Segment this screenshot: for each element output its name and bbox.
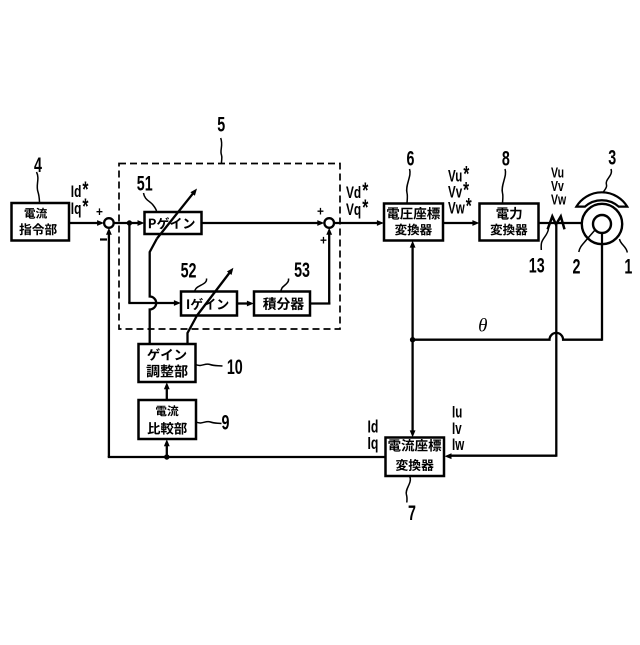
box 10: gain adjuster xyxy=(139,344,196,382)
text 電流 (box 9) xyxy=(156,405,178,416)
junction dot on theta line xyxy=(410,337,415,342)
motor stator magnet 3 (crescent) xyxy=(576,192,627,206)
leader line for label 53 xyxy=(281,279,289,292)
motor outer circle 2 (stator) xyxy=(582,204,622,244)
leader line for label 6 xyxy=(407,169,410,203)
wire: voltage coordinate converter to power converter xyxy=(443,222,475,224)
svg-text:6: 6 xyxy=(407,147,415,170)
text 調整部 (box 10) xyxy=(147,364,188,377)
svg-text:9: 9 xyxy=(222,411,230,434)
junction dot on bottom feedback line xyxy=(164,454,169,459)
box 51: P gain xyxy=(145,212,202,234)
text Iゲイン xyxy=(187,298,228,310)
svg-text:13: 13 xyxy=(529,254,545,277)
text 比較部 (box 9) xyxy=(148,422,187,435)
wire: gain adjuster up to P gain adjust arrow (with hop over I gain wire) xyxy=(150,239,157,345)
text 変換器 (box 7) xyxy=(396,459,434,471)
leader line for label 52 xyxy=(195,279,207,292)
coil 13 (reactor zigzag) xyxy=(548,216,565,229)
box 7: current coordinate converter xyxy=(386,438,445,477)
box 6: voltage coordinate converter xyxy=(384,204,443,241)
wire: current feedback up into summing junction S1 (minus input) xyxy=(108,232,110,457)
svg-text:Vq*: Vq* xyxy=(346,196,369,220)
junction dot after S1 xyxy=(127,220,132,225)
box 9: current comparator xyxy=(139,400,197,439)
text 積分器 xyxy=(263,297,304,310)
text 電圧座標 (box 6) xyxy=(387,207,440,220)
wire: junction down and right into I gain box xyxy=(128,223,130,303)
text 電流座標 (box 7) xyxy=(388,439,441,452)
leader line for label 8 xyxy=(502,169,505,203)
text 電流 (box 4) xyxy=(25,208,47,219)
svg-text:5: 5 xyxy=(217,113,225,136)
svg-text:+: + xyxy=(320,233,327,247)
text 電力 (box 8) xyxy=(497,207,522,220)
motor inner circle 1 (rotor) xyxy=(593,215,611,233)
svg-text:7: 7 xyxy=(408,501,416,524)
leader line for label 51 xyxy=(144,193,157,211)
leader line for label 13 xyxy=(541,229,548,251)
dashed box 5 (PI controller) xyxy=(119,164,340,330)
wire: I gain output to integrator xyxy=(237,302,250,304)
leader line for label 7 xyxy=(406,477,410,503)
svg-text:θ: θ xyxy=(478,316,487,337)
wire: P gain output to summing junction S2 xyxy=(202,222,321,224)
wire: integrator output up into summing junction S2 xyxy=(310,302,329,304)
svg-text:Vw: Vw xyxy=(551,191,567,208)
text 変換器 (box 6) xyxy=(395,224,432,236)
box 52: I gain xyxy=(181,292,237,316)
wire: box4 output to summing junction S1 xyxy=(69,222,100,224)
text 指令部 (box 4) xyxy=(19,223,56,235)
summing junction S1 xyxy=(104,218,114,228)
text 変換器 (box 8) xyxy=(491,224,528,236)
wire: power converter to coil to motor xyxy=(539,222,582,224)
svg-text:4: 4 xyxy=(34,153,42,176)
leader line for label 1 xyxy=(620,239,628,253)
svg-text:+: + xyxy=(96,205,103,219)
minus sign at S1 xyxy=(100,238,107,240)
wire: gain adjuster up to I gain adjust arrow xyxy=(188,316,198,345)
svg-text:52: 52 xyxy=(181,259,197,282)
wire: summing junction S1 to P gain box (with branch dot) xyxy=(114,222,140,224)
svg-text:3: 3 xyxy=(608,146,616,169)
leader line for label 4 xyxy=(37,172,40,202)
theta feedback wire from motor shaft (with hop) xyxy=(413,333,602,340)
svg-text:53: 53 xyxy=(294,258,310,281)
svg-text:2: 2 xyxy=(573,255,581,278)
wire: theta junction up into voltage coordinate converter xyxy=(411,245,413,340)
leader line for label 9 xyxy=(196,422,222,424)
wire: feedback junction up into current comparator xyxy=(166,444,168,458)
wire: summing junction S2 to voltage coordinate converter xyxy=(334,222,380,224)
leader line for label 3 xyxy=(603,169,611,192)
svg-text:Iw: Iw xyxy=(452,436,465,455)
leader line for label 2 xyxy=(579,230,595,252)
summing junction S2 xyxy=(324,218,334,228)
gain adjust arrow through P gain box (51) xyxy=(157,192,194,238)
wire: current comparator to gain adjuster xyxy=(166,387,168,401)
svg-text:+: + xyxy=(317,204,324,218)
svg-text:1: 1 xyxy=(624,255,632,278)
wire: bottom feedback line from current coordinate converter to S1 xyxy=(109,456,386,458)
wire: motor shaft down to theta line xyxy=(601,233,603,341)
svg-text:Iq*: Iq* xyxy=(71,195,89,219)
gain adjust arrow through I gain box (52) xyxy=(197,272,231,316)
box 53: integrator xyxy=(254,292,310,316)
wire: phase current tap down from coil and into current coordinate converter xyxy=(555,224,557,457)
leader line for label 5 xyxy=(221,138,222,164)
text ゲイン (box 10) xyxy=(147,348,186,360)
text Pゲイン xyxy=(149,217,195,229)
box 8: power converter xyxy=(480,204,539,241)
svg-text:10: 10 xyxy=(227,355,243,378)
svg-text:Iq: Iq xyxy=(368,434,379,454)
wire: theta junction down into current coordinate converter xyxy=(411,340,413,433)
motor shaft stub inside ring xyxy=(601,233,603,245)
svg-text:51: 51 xyxy=(137,172,153,195)
svg-text:8: 8 xyxy=(502,147,510,170)
leader line for label 10 xyxy=(196,364,223,366)
box 4: current command unit xyxy=(12,203,70,241)
